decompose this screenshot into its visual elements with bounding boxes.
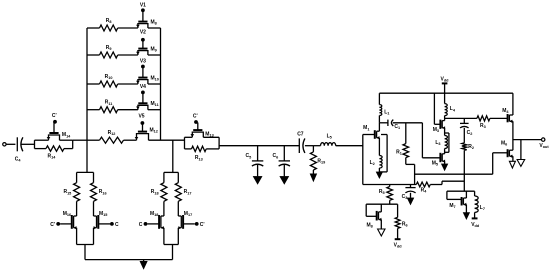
- transistor M14: [47, 122, 71, 140]
- transistor M15: [94, 211, 111, 230]
- ground (C5): [253, 176, 262, 184]
- svg-text:V3: V3: [140, 59, 146, 65]
- resistor R5: [379, 185, 393, 201]
- supply Vdd (under L7): [471, 218, 480, 228]
- wire bias vertical (M1 gate to bottom rail): [362, 135, 364, 185]
- svg-text:C': C': [50, 222, 55, 228]
- wire M1 source down: [378, 138, 380, 172]
- node V4: [140, 84, 146, 94]
- capacitor C5: [245, 146, 263, 177]
- resistor R19: [310, 146, 325, 174]
- wire branch bottom join: [77, 228, 94, 260]
- terminal C' (M13 gate): [193, 114, 198, 124]
- wire R6 to M7 column: [430, 181, 464, 184]
- resistor R1: [396, 144, 408, 158]
- ground (R19): [310, 174, 317, 182]
- svg-text:C: C: [139, 222, 143, 228]
- resistor R4: [416, 182, 430, 193]
- resistor R6: [395, 204, 407, 239]
- wire M6 bulk drop: [520, 140, 522, 160]
- wire branch limbs: [77, 172, 94, 216]
- wire stack node to M4 gate: [445, 117, 477, 119]
- svg-text:C': C': [193, 114, 198, 120]
- terminal C' (M16 gate): [50, 222, 60, 228]
- svg-text:C7: C7: [297, 131, 304, 137]
- wire ladder row R11: [87, 109, 161, 111]
- transistor M10: [136, 67, 159, 85]
- capacitor C1: [379, 120, 422, 130]
- ground (M7 source): [463, 213, 469, 220]
- wire ladder row R10: [87, 83, 161, 85]
- resistor R8: [100, 18, 118, 31]
- wire ladder left bus: [86, 28, 88, 140]
- wire M1 drain up: [378, 123, 380, 131]
- wire M6 source: [512, 156, 514, 161]
- wire top rail: [379, 92, 513, 94]
- wire C1 node to M5 gate: [422, 123, 440, 158]
- wire M1 gate: [363, 134, 375, 136]
- wire combo box M14/R14: [35, 140, 73, 148]
- transistor M3: [433, 120, 445, 133]
- wire after C7: [305, 145, 321, 147]
- wire M7 node: [447, 191, 475, 212]
- inductor L1: [379, 93, 389, 123]
- resistor R13: [192, 146, 207, 161]
- ground (C3): [407, 198, 414, 205]
- resistor R10: [100, 74, 118, 87]
- node V1: [140, 3, 146, 13]
- wire branch stem at x=172.8: [164, 140, 178, 172]
- node V2: [140, 30, 146, 42]
- wire R1 bottom path: [406, 158, 415, 185]
- terminal C' (M14 gate): [52, 113, 57, 124]
- transistor M17: [178, 211, 195, 230]
- wire ladder row R8: [87, 27, 161, 29]
- transistor M13: [191, 123, 214, 138]
- wire branch bottom join: [164, 228, 178, 260]
- inductor L4: [445, 104, 456, 121]
- wire combo box M13/R13: [185, 137, 220, 149]
- svg-text:C: C: [115, 222, 119, 228]
- resistor R2: [462, 143, 474, 150]
- inductor L7: [475, 191, 485, 218]
- ground (M6 bulk): [517, 160, 525, 167]
- transistor M9: [136, 40, 157, 55]
- wire R2 to M7 node: [463, 150, 465, 191]
- resistor R18: [151, 183, 167, 202]
- wire bias rail to M6 gate: [415, 153, 508, 174]
- wire after R13 combo: [219, 145, 299, 147]
- svg-text:V1: V1: [140, 3, 146, 9]
- transistor M11: [136, 92, 159, 109]
- wire ladder row R9: [87, 54, 161, 56]
- terminal C' (M17 gate): [195, 222, 205, 228]
- wire L3 bulk loop: [445, 133, 449, 152]
- ground (M6 source): [509, 161, 515, 168]
- transistor M7: [449, 197, 466, 209]
- svg-text:C': C': [200, 222, 205, 228]
- wire R3 to M4 gate: [490, 117, 507, 119]
- resistor R15: [63, 183, 79, 202]
- svg-text:C': C': [52, 113, 57, 119]
- resistor R3: [477, 116, 490, 129]
- wire R5 bottom node: [366, 200, 397, 216]
- ground (M1 source): [376, 172, 382, 178]
- wire to node A: [73, 139, 87, 141]
- supply Vdd (top): [441, 77, 450, 104]
- wire L2 bulk loop: [379, 135, 387, 172]
- transistor M5: [432, 153, 445, 167]
- ground (M5 source): [441, 164, 447, 171]
- transistor M18: [147, 211, 164, 230]
- terminal C (M18 gate): [139, 222, 148, 228]
- capacitor C3: [402, 185, 416, 200]
- inductor L5: [321, 134, 336, 146]
- wire M3 gate drop: [434, 93, 440, 124]
- ground (diff pair): [140, 260, 147, 269]
- transistor M12: [135, 123, 158, 140]
- capacitor C4: [15, 137, 35, 162]
- transistor M16: [60, 211, 77, 230]
- wire C1 to R1: [405, 123, 407, 144]
- supply Vdd (under R4): [394, 239, 403, 249]
- transistor M8: [136, 10, 157, 28]
- inductor L2: [370, 156, 383, 169]
- transistor M4: [502, 108, 513, 123]
- wire common source rail: [85, 259, 173, 261]
- wire ladder right bus: [160, 28, 162, 140]
- terminal C (M15 gate): [110, 222, 119, 228]
- transistor M8: [367, 204, 382, 229]
- output terminal Vout: [539, 138, 549, 149]
- capacitor C6: [273, 146, 290, 177]
- wire M5 source: [444, 161, 446, 164]
- svg-text:V5: V5: [138, 114, 144, 120]
- wire main line left: [87, 139, 185, 141]
- inductor L3: [435, 128, 447, 154]
- svg-text:V4: V4: [140, 84, 146, 90]
- ground (C6): [280, 176, 289, 184]
- wire branch limbs: [164, 172, 178, 216]
- resistor R16: [91, 183, 107, 202]
- ground (M8 source): [378, 229, 385, 236]
- node V3: [140, 59, 146, 69]
- svg-text:V2: V2: [140, 30, 146, 36]
- wire branch stem at x=87.0: [77, 140, 94, 172]
- capacitor C2: [460, 118, 472, 142]
- transistor M6: [501, 140, 513, 158]
- resistor R12: [100, 130, 124, 143]
- resistor R9: [100, 45, 118, 58]
- wire M7 gate loop: [447, 191, 461, 199]
- resistor R17: [175, 183, 191, 202]
- wire M4 source to M6 drain: [512, 121, 514, 150]
- wire bottom rail: [363, 184, 417, 186]
- wire M4 drain: [512, 93, 514, 115]
- node V5: [138, 114, 144, 125]
- input port terminal: [3, 143, 16, 146]
- wire L5 to M1 gate node: [336, 145, 363, 147]
- resistor R11: [100, 100, 118, 113]
- wire Vout tap: [513, 139, 542, 141]
- resistor R14: [46, 146, 64, 160]
- transistor M1: [363, 125, 379, 139]
- capacitor C7: [297, 131, 305, 153]
